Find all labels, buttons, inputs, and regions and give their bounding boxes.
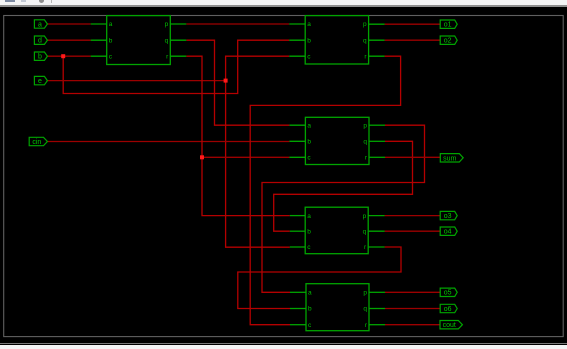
svg-text:a: a: [307, 122, 311, 129]
wire U3.q to U4.b: [274, 141, 413, 231]
svg-text:q: q: [165, 37, 169, 44]
wire U5.q to o6: [385, 308, 440, 310]
svg-text:p: p: [363, 21, 367, 28]
svg-text:b: b: [308, 306, 312, 313]
svg-text:o3: o3: [444, 213, 452, 220]
full-adder U2: [289, 16, 384, 64]
wire U4.p to o3: [385, 215, 441, 217]
port o6: [440, 304, 457, 312]
svg-text:o1: o1: [444, 22, 452, 29]
svg-text:q: q: [363, 306, 367, 313]
port a: [34, 20, 47, 28]
svg-text:c: c: [307, 53, 311, 60]
wire U1.r branch to U3.c: [202, 156, 289, 158]
wire U3.r to sum: [385, 156, 440, 158]
svg-text:b: b: [38, 54, 42, 61]
wire U3.p to U5.a: [262, 125, 425, 292]
svg-text:a: a: [109, 21, 113, 28]
svg-text:a: a: [307, 21, 311, 28]
port cout: [440, 321, 462, 329]
full-adder U3: [289, 117, 385, 164]
full-adder U5: [290, 284, 385, 331]
wire U1.q to U3.a: [186, 40, 289, 125]
wire U5.p to o5: [385, 291, 440, 293]
svg-text:r: r: [166, 53, 169, 60]
wire U4.r to U5.b: [238, 247, 401, 309]
svg-text:a: a: [307, 213, 311, 220]
node junction r: [200, 155, 204, 159]
svg-text:r: r: [365, 322, 368, 329]
port sum: [440, 154, 463, 162]
svg-text:b: b: [307, 37, 311, 44]
wire U2.q to o2: [385, 39, 441, 41]
svg-text:e: e: [38, 78, 42, 85]
svg-text:r: r: [364, 244, 367, 251]
svg-text:o2: o2: [444, 38, 452, 45]
svg-text:o5: o5: [444, 290, 452, 297]
svg-text:b: b: [109, 37, 113, 44]
wire U4.q to o4: [385, 230, 441, 232]
svg-text:q: q: [363, 139, 367, 146]
svg-text:d: d: [38, 38, 42, 45]
bottom status strip: [0, 343, 567, 344]
port o2: [440, 36, 457, 44]
port o3: [440, 211, 457, 219]
svg-text:sum: sum: [443, 155, 456, 162]
wire cin to U3.b: [47, 141, 289, 143]
wire a to U1.a: [47, 23, 91, 25]
svg-text:p: p: [363, 290, 367, 297]
wire U2.p to o1: [385, 23, 441, 25]
port o5: [440, 288, 457, 296]
svg-text:o4: o4: [444, 229, 452, 236]
port b: [34, 52, 47, 60]
svg-text:r: r: [364, 53, 367, 60]
wire U5.r to cout: [385, 324, 440, 326]
svg-text:b: b: [307, 228, 311, 235]
port d: [34, 36, 47, 44]
wire e branch down to U4.c: [226, 81, 290, 248]
svg-text:cout: cout: [443, 322, 456, 329]
port o4: [440, 227, 457, 235]
svg-text:a: a: [308, 290, 312, 297]
svg-text:b: b: [307, 139, 311, 146]
wire b branch to U2.b: [63, 40, 289, 93]
svg-text:a: a: [38, 21, 42, 28]
svg-text:cin: cin: [32, 139, 41, 146]
svg-text:c: c: [307, 244, 311, 251]
wire U1.p to U2.a: [186, 23, 289, 25]
svg-text:r: r: [365, 155, 368, 162]
toolbar strip: [0, 0, 567, 5]
svg-text:p: p: [363, 122, 367, 129]
svg-text:o6: o6: [444, 306, 452, 313]
svg-text:p: p: [165, 21, 169, 28]
wire e horizontal: [47, 80, 226, 82]
svg-text:p: p: [363, 213, 367, 220]
port cin: [29, 137, 47, 145]
svg-text:q: q: [363, 37, 367, 44]
svg-text:c: c: [109, 53, 113, 60]
wire e branch up to U2.c: [226, 56, 290, 80]
port e: [34, 76, 47, 84]
svg-text:c: c: [308, 322, 312, 329]
wire U2.r to U5.c: [250, 56, 400, 325]
node junction b: [61, 54, 65, 58]
svg-text:c: c: [307, 155, 311, 162]
svg-text:q: q: [363, 228, 367, 235]
wire d to U1.b: [47, 39, 91, 41]
node junction e: [224, 79, 228, 83]
full-adder U1: [91, 16, 187, 65]
wire U1.r vertical to U4.a: [186, 56, 289, 215]
wire b to U1.c: [47, 55, 91, 57]
port o1: [440, 20, 457, 28]
full-adder U4: [290, 207, 385, 254]
